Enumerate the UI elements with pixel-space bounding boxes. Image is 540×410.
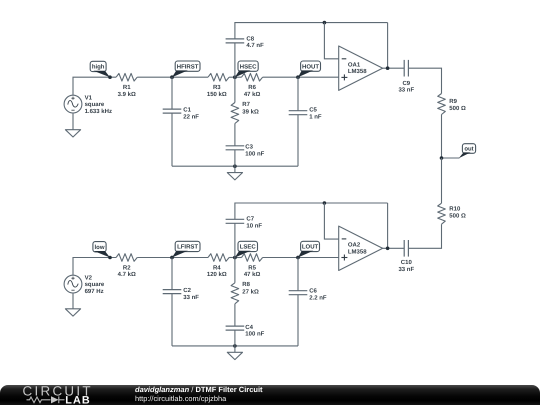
wire [234,77,236,102]
svg-text:R10: R10 [449,205,461,212]
wire [229,76,241,78]
capacitor C8 [226,39,245,43]
label V1 square 1.633 kHz [85,94,112,115]
wire [229,257,241,259]
label V2 square 697 Hz [85,274,105,295]
svg-text:27 kΩ: 27 kΩ [242,289,259,296]
label R5 47 k&#937; [244,264,261,278]
svg-text:HSEC: HSEC [240,63,257,70]
capacitor C5 [289,111,308,115]
svg-text:V2: V2 [85,274,93,281]
svg-text:square: square [85,102,105,108]
svg-text:LFIRST: LFIRST [177,244,198,251]
wire [234,223,236,257]
node low flag [93,242,112,260]
svg-text:out: out [464,146,473,152]
wire [297,295,299,346]
label C3 100 nF [245,144,264,158]
wire [263,76,339,78]
wire [383,67,405,69]
node out flag [459,144,476,159]
wire [72,113,74,130]
ground [227,173,242,180]
node HSEC flag [233,61,258,79]
svg-text:1 nF: 1 nF [309,114,322,121]
capacitor C1 [163,109,182,113]
svg-text:10 nF: 10 nF [246,222,262,229]
junction HFIRST [170,75,174,79]
wire [441,158,443,203]
svg-text:C2: C2 [183,287,191,294]
svg-text:square: square [85,282,105,288]
label C4 100 nF [245,324,264,338]
label C9 33 nF [398,80,414,93]
svg-text:R1: R1 [123,84,131,91]
svg-text:LSEC: LSEC [240,244,257,251]
svg-text:39 kΩ: 39 kΩ [242,108,259,115]
label R4 120 k&#937; [207,264,227,278]
svg-text:500 Ω: 500 Ω [449,212,466,219]
svg-text:LM358: LM358 [348,248,367,255]
wire [235,203,388,219]
node HOUT flag [296,61,320,79]
resistor R2 [116,254,137,262]
footer title text [135,384,435,405]
svg-text:LOUT: LOUT [302,244,319,251]
wire [263,257,339,259]
wire [324,23,338,59]
svg-text:davidglanzman / DTMF Filter Ci: davidglanzman / DTMF Filter Circuit [135,385,263,394]
wire [234,124,236,146]
wire [171,258,173,290]
svg-text:C4: C4 [245,324,253,331]
label R2 4.7 k&#937; [118,264,136,278]
wire [171,113,173,166]
label C6 2.2 nF [309,287,327,301]
node LOUT flag [296,241,319,259]
node LSEC flag [233,241,257,259]
junction LFIRST [170,256,174,260]
svg-text:C9: C9 [402,80,410,87]
label C7 10 nF [246,216,262,230]
wire [297,115,299,167]
wire [234,304,236,326]
capacitor C2 [163,290,182,294]
junction rail2-gnd [233,344,237,348]
wire [72,293,74,309]
junction HSEC [233,75,237,79]
svg-text:HFIRST: HFIRST [177,63,199,70]
svg-text:C7: C7 [246,216,254,223]
svg-text:R4: R4 [213,264,221,271]
label C5 1 nF [309,106,322,120]
wire [172,345,298,347]
junction LOUT [296,256,300,260]
svg-text:R8: R8 [242,281,250,288]
node LFIRST flag [170,241,200,259]
resistor R4 [208,254,229,262]
svg-text:100 nF: 100 nF [245,150,264,157]
wire [297,258,299,291]
label C2 33 nF [183,287,199,301]
junction feedback bottom [323,201,327,205]
svg-text:2.2 nF: 2.2 nF [309,295,327,302]
svg-text:R5: R5 [248,264,256,271]
wire [73,77,116,95]
svg-text:http://circuitlab.com/cpjzbha: http://circuitlab.com/cpjzbha [135,394,227,403]
wire [383,247,405,249]
svg-text:4.7 kΩ: 4.7 kΩ [118,271,136,278]
svg-text:LM358: LM358 [348,68,367,75]
wire [324,203,338,239]
wire [408,68,441,93]
resistor R1 [116,73,137,81]
svg-text:4.7 nF: 4.7 nF [246,42,264,49]
svg-text:47 kΩ: 47 kΩ [244,271,261,278]
svg-text:low: low [95,244,105,251]
svg-text:R3: R3 [213,84,221,91]
label R7 39 k&#937; [242,101,259,115]
capacitor C10 [404,240,408,257]
svg-text:C1: C1 [183,106,191,113]
svg-text:1.633 kHz: 1.633 kHz [85,108,112,115]
svg-text:C6: C6 [309,287,317,294]
wire [387,203,389,248]
capacitor C3 [226,146,245,150]
svg-text:high: high [92,64,105,71]
svg-text:R6: R6 [248,84,256,91]
svg-text:V1: V1 [85,94,93,101]
svg-text:22 nF: 22 nF [183,114,199,121]
wire [387,23,389,69]
svg-text:C10: C10 [401,259,413,266]
junction out [440,156,444,160]
svg-text:33 nF: 33 nF [398,266,414,273]
resistor R7 [231,103,239,124]
wire [234,346,236,352]
wire [137,257,208,259]
wire [234,43,236,77]
wire [297,77,299,111]
node high flag [90,61,112,79]
capacitor C9 [404,60,408,77]
voltage source V2 [64,275,82,293]
svg-text:120 kΩ: 120 kΩ [207,271,227,278]
ground [227,352,242,359]
junction HOUT [296,75,300,79]
svg-text:R7: R7 [242,101,250,108]
svg-text:R9: R9 [449,98,457,105]
wire [234,258,236,283]
label R10 500 &#937; [449,205,466,219]
resistor R6 [242,73,263,81]
svg-text:33 nF: 33 nF [183,294,199,301]
svg-text:150 kΩ: 150 kΩ [207,91,227,98]
svg-text:C8: C8 [246,35,254,42]
node HFIRST flag [170,61,200,79]
wire [234,150,236,166]
wire [172,165,298,167]
label R1 3.9 k&#937; [118,84,136,98]
junction feedback top [323,21,327,25]
label R9 500 &#937; [449,98,466,112]
svg-text:HOUT: HOUT [302,63,319,70]
wire [408,224,441,248]
svg-text:500 Ω: 500 Ω [449,105,466,112]
junction OA2 output [386,247,390,251]
svg-text:100 nF: 100 nF [245,331,264,338]
label C10 33 nF [398,259,414,273]
junction OA1 output [386,66,390,70]
resistor R8 [231,283,239,304]
wire [137,76,208,78]
svg-text:47 kΩ: 47 kΩ [244,91,261,98]
resistor R9 [438,94,446,115]
wire [171,294,173,346]
wire [235,23,388,39]
wire [441,115,443,159]
footer bar [0,385,540,406]
svg-text:OA2: OA2 [348,241,361,248]
ground [65,130,80,137]
op-amp OA2 LM358 [339,226,383,270]
resistor R3 [208,73,229,81]
wire [442,157,460,159]
label R8 27 k&#937; [242,281,259,295]
resistor R5 [242,254,263,262]
resistor R10 [438,203,446,224]
capacitor C7 [226,219,245,223]
svg-text:3.9 kΩ: 3.9 kΩ [118,91,136,98]
svg-text:OA1: OA1 [348,61,361,68]
svg-text:697 Hz: 697 Hz [85,288,104,295]
wire [234,166,236,172]
junction rail-gnd [233,164,237,168]
label R3 150 k&#937; [207,84,227,98]
svg-text:LAB: LAB [65,394,91,405]
op-amp OA1 LM358 [339,46,383,90]
voltage source V1 [64,95,82,113]
wire [234,330,236,346]
label C1 22 nF [183,106,199,120]
capacitor C6 [289,291,308,295]
junction LSEC [233,256,237,260]
capacitor C4 [226,326,245,330]
svg-text:C3: C3 [245,144,253,151]
svg-text:C5: C5 [309,106,317,113]
CircuitLab logo [0,384,130,410]
wire [73,258,116,276]
label C8 4.7 nF [246,35,264,49]
wire [171,77,173,109]
ground [65,309,80,316]
svg-text:33 nF: 33 nF [398,87,414,94]
label R6 47 k&#937; [244,84,261,98]
svg-text:R2: R2 [123,264,131,271]
